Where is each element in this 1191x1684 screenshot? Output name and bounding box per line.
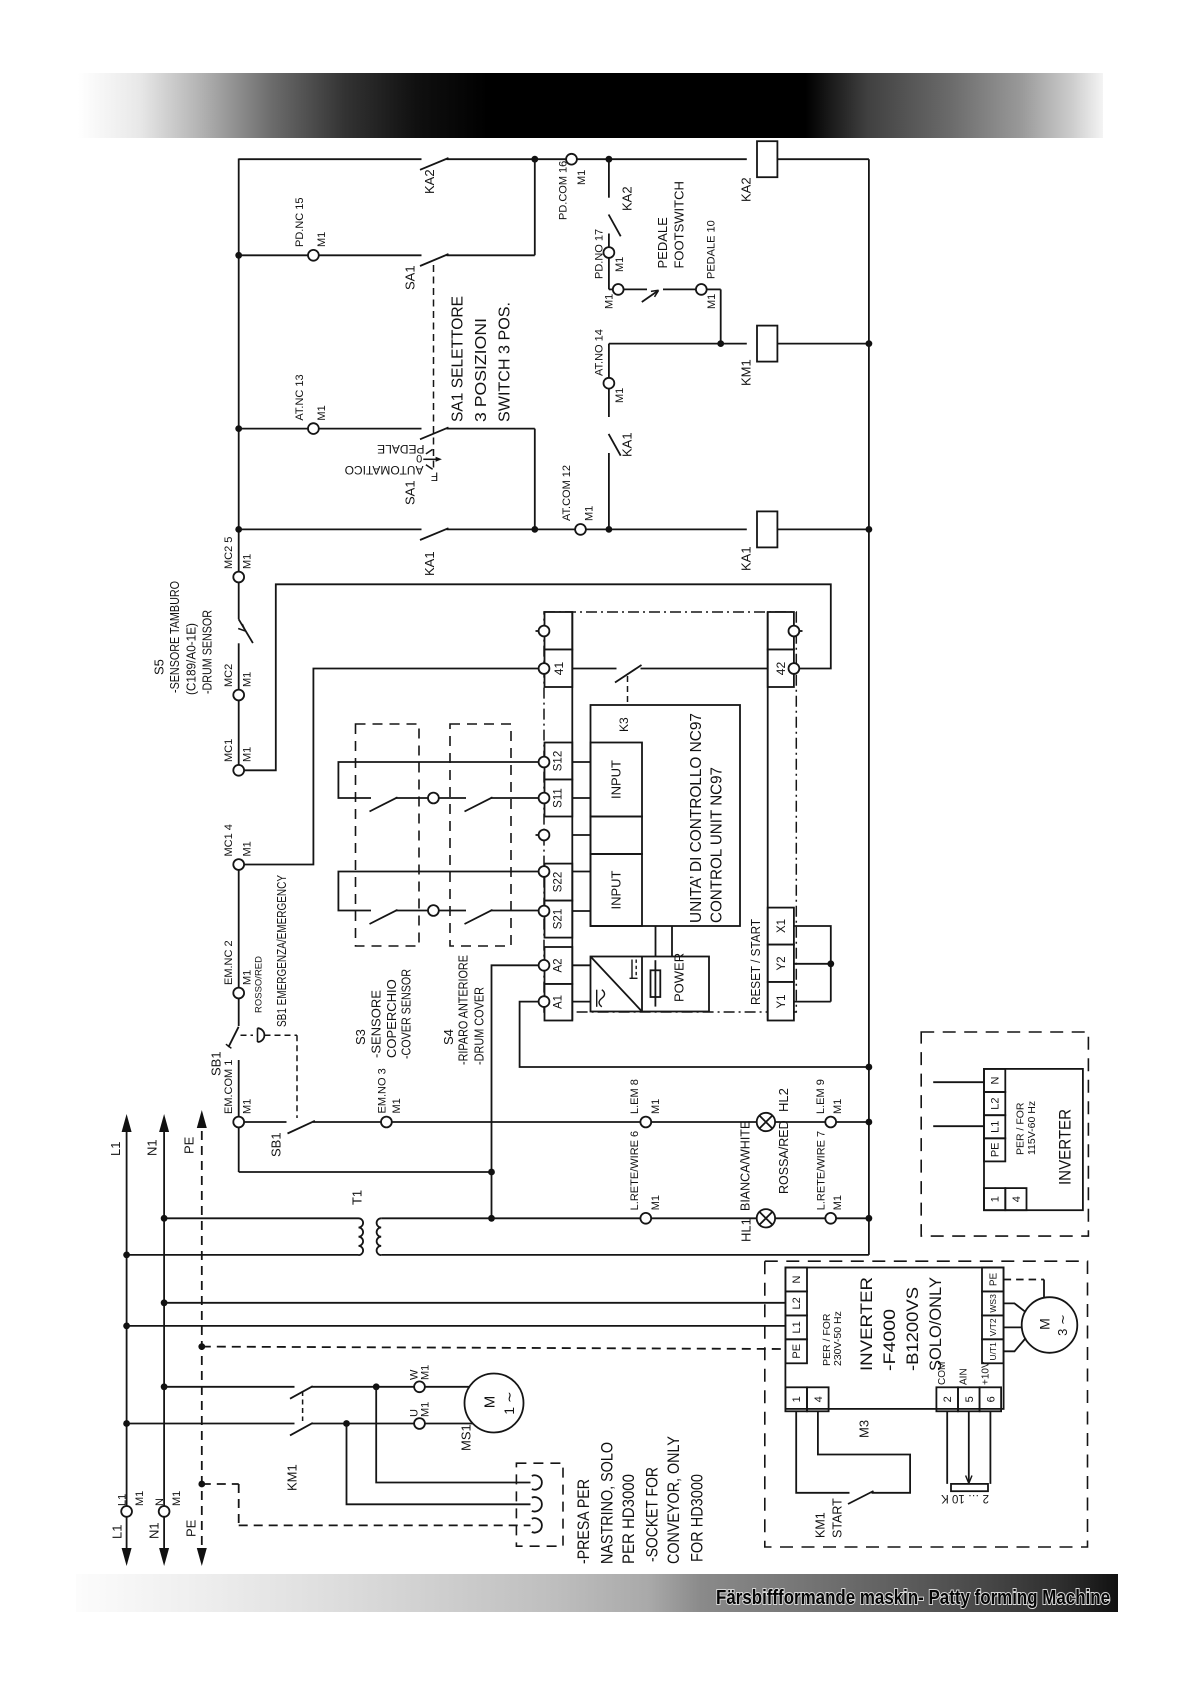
svg-text:M: M [481, 1396, 498, 1409]
wire AT.NO 14 branch [608, 344, 610, 378]
wire S11 to control unit [491, 797, 539, 799]
wire between S3 and S4 contacts (S21) [396, 910, 429, 912]
svg-text:M1: M1 [614, 388, 626, 403]
terminal EM.NO 3 / M1 [381, 1117, 392, 1128]
contact KA1 (NO) on rung [420, 528, 449, 540]
svg-text:RESET / START: RESET / START [748, 919, 763, 1005]
wire N1 to T1 primary top [164, 1217, 358, 1219]
wire WIRE7 to rail [836, 1217, 869, 1219]
svg-text:M: M [1037, 1318, 1053, 1330]
wire L.EM 9 to rail [836, 1121, 869, 1123]
svg-text:X1: X1 [776, 919, 788, 933]
wire rung motor U [127, 1423, 295, 1425]
node junction (830.8,963.8) [827, 960, 834, 967]
contact KA1 (branch x=609) [608, 388, 610, 417]
svg-text:L.RETE/WIRE 7: L.RETE/WIRE 7 [815, 1131, 827, 1210]
node junctions on buses [161, 1215, 168, 1222]
terminal PD.NO 17 / M1 [604, 247, 615, 258]
svg-text:2: 2 [942, 1396, 954, 1402]
node junction rail y=255.3 [235, 252, 242, 259]
svg-text:INVERTER: INVERTER [857, 1277, 876, 1371]
svg-text:L2: L2 [791, 1297, 803, 1309]
control unit inner block [591, 705, 741, 926]
svg-text:N: N [990, 1076, 1002, 1084]
wire to U terminal [312, 1423, 415, 1425]
control unit NC97 boundary (dash-dot) [544, 612, 796, 1012]
terminal junction S11 between boxes [428, 793, 439, 804]
svg-text:L1: L1 [791, 1321, 803, 1333]
svg-text:1: 1 [990, 1196, 1002, 1202]
terminal L.RETE/WIRE 7 / M1 [825, 1213, 836, 1224]
inverter body [785, 1268, 1003, 1409]
svg-text:L.EM 9: L.EM 9 [815, 1079, 827, 1114]
node junction (346.5,1423.5) [343, 1420, 350, 1427]
svg-text:115V-60 Hz: 115V-60 Hz [1026, 1101, 1038, 1155]
svg-text:M1: M1 [706, 294, 718, 309]
svg-text:SA1 SELETTORE: SA1 SELETTORE [450, 296, 467, 422]
svg-text:N1: N1 [145, 1139, 160, 1156]
node junction rail y=1218.3 [866, 1215, 873, 1222]
wire W to motor [425, 1386, 470, 1388]
svg-text:FOOTSWITCH: FOOTSWITCH [672, 181, 687, 268]
contact KM1 START [848, 1491, 874, 1504]
terminal box A2 [545, 947, 573, 984]
coil KM1 [757, 326, 777, 362]
wire L1 to inverter L1 [127, 1325, 786, 1327]
S4 dashed enclosure box [450, 724, 511, 946]
wire V/T2 to motor [1004, 1326, 1022, 1328]
svg-text:PEDALE 10: PEDALE 10 [706, 220, 718, 279]
wire X1/Y2/Y1 jumper [794, 926, 831, 1002]
svg-text:AT.COM 12: AT.COM 12 [561, 465, 573, 521]
svg-text:KA2: KA2 [620, 186, 635, 211]
terminal MC1 / M1 on rail [233, 765, 244, 776]
terminal box X1 [768, 908, 794, 945]
svg-text:L1: L1 [117, 1494, 129, 1506]
terminal AT.COM 12 / M1 [575, 524, 586, 535]
svg-text:M1: M1 [420, 1402, 432, 1417]
svg-text:PD.NO 17: PD.NO 17 [594, 229, 606, 279]
svg-text:-SENSORE TAMBURO: -SENSORE TAMBURO [167, 581, 182, 693]
wire: EM.COM return to node (491.5,1172) [239, 1171, 492, 1173]
svg-text:PD.COM 16: PD.COM 16 [558, 161, 570, 220]
wire vertical x=535 joining AT.NC rung to KA1 rung [534, 429, 536, 530]
svg-text:N1: N1 [147, 1522, 162, 1539]
svg-text:3 POSIZIONI: 3 POSIZIONI [473, 318, 490, 422]
svg-text:SA1: SA1 [403, 480, 418, 505]
svg-text:L1: L1 [108, 1142, 123, 1156]
svg-text:KA1: KA1 [422, 551, 437, 576]
wire rung KM1 coil [609, 343, 747, 345]
svg-text:M1: M1 [576, 170, 588, 185]
wire stub to L1 (115V) [933, 1125, 984, 1127]
svg-text:PEDALE: PEDALE [655, 217, 670, 269]
svg-text:PE: PE [988, 1273, 999, 1287]
terminal AT.NC 13 / M1 [308, 423, 319, 434]
wire EM rung + contact SB1 NO [244, 1121, 381, 1134]
svg-text:MS1: MS1 [459, 1424, 474, 1451]
bus N1 vertical [163, 1131, 165, 1506]
node junction rail y=1067 [866, 1064, 873, 1071]
wire to lamp HL2 [651, 1121, 757, 1123]
svg-text:1 ∼: 1 ∼ [501, 1391, 517, 1414]
wire: right rail x=868.9 [868, 159, 870, 1255]
svg-text:S4: S4 [441, 1029, 456, 1045]
contact KM1 lower [290, 1423, 313, 1436]
svg-text:KM1: KM1 [814, 1512, 828, 1538]
wire PD.NO17 down to footswitch terminal [608, 258, 610, 290]
wire to W terminal [312, 1386, 415, 1388]
svg-text:M1: M1 [242, 672, 254, 687]
terminal box 42 [768, 650, 794, 688]
svg-text:M1: M1 [134, 1491, 146, 1506]
svg-text:PE: PE [182, 1136, 197, 1154]
wire terminal1 to KM1 start contact [796, 1411, 849, 1493]
svg-text:M1: M1 [242, 970, 254, 985]
svg-text:L1: L1 [110, 1525, 125, 1539]
wire S22 loop [338, 872, 538, 911]
svg-text:SB1: SB1 [269, 1132, 284, 1157]
svg-text:SB1 EMERGENZA/EMERGENCY: SB1 EMERGENZA/EMERGENCY [275, 874, 289, 1027]
wire: left supply rail x=238.7 segments [238, 159, 240, 1173]
wire rung AT.NC 13 [239, 428, 309, 430]
SB1 actuator dashed link [241, 1034, 254, 1036]
svg-text:EM.NC 2: EM.NC 2 [223, 940, 235, 985]
wire MC1 4 to terminal 41 (via x=313.4, y=668.5) [244, 669, 539, 865]
S3 dashed enclosure box [356, 724, 420, 946]
node junction rail right y=529 [866, 526, 873, 533]
wire rung PD.NC 15 [239, 254, 309, 256]
svg-text:-DRUM COVER: -DRUM COVER [472, 987, 487, 1065]
motor MS1 1-phase [465, 1374, 524, 1433]
svg-text:M1: M1 [242, 1099, 254, 1114]
wire S21 to control unit [491, 910, 539, 912]
svg-text:A1: A1 [553, 995, 565, 1009]
svg-text:S22: S22 [553, 872, 565, 892]
inverter terminal boxes 1 4 [785, 1387, 807, 1411]
INPUT block 1 [591, 743, 643, 817]
svg-text:HL2: HL2 [776, 1088, 791, 1112]
contact S3 (S21 circuit) [370, 910, 398, 924]
svg-text:M1: M1 [316, 232, 328, 247]
title bar bottom (scanned gradient) [76, 1574, 1118, 1612]
svg-text:MC2: MC2 [223, 664, 235, 687]
control unit inner vertical rails [571, 612, 573, 1021]
svg-text:INPUT: INPUT [609, 760, 624, 799]
wire WS3 to motor [1004, 1303, 1026, 1312]
terminal MC1 4 / M1 on rail [233, 859, 244, 870]
wire stub to N (115V) [933, 1081, 984, 1083]
svg-text:4: 4 [813, 1396, 825, 1402]
svg-text:A2: A2 [553, 958, 565, 972]
node junction (491.5,1172) [488, 1169, 495, 1176]
coil KA1 [757, 511, 777, 547]
svg-text:M1: M1 [650, 1195, 662, 1210]
svg-text:KA1: KA1 [620, 432, 635, 457]
svg-text:-COVER SENSOR: -COVER SENSOR [399, 969, 414, 1059]
terminal L.EM 9 / M1 [825, 1117, 836, 1128]
terminal L.RETE/WIRE 6 / M1 [640, 1213, 651, 1224]
svg-text:MC1: MC1 [223, 739, 235, 762]
inverter M3 dashed enclosure [765, 1261, 1088, 1547]
svg-text:Y1: Y1 [776, 994, 788, 1008]
svg-text:CONVEYOR, ONLY: CONVEYOR, ONLY [665, 1436, 683, 1564]
svg-text:EM.COM 1: EM.COM 1 [223, 1060, 235, 1114]
svg-text:M1: M1 [316, 405, 328, 420]
svg-text:M1: M1 [604, 294, 616, 309]
wires POWER to control block [655, 926, 657, 957]
terminal box S21 [545, 901, 573, 938]
svg-text:S3: S3 [353, 1029, 368, 1045]
svg-text:M1: M1 [171, 1491, 183, 1506]
sensor S5 drum sensor contact [238, 619, 253, 643]
mid block [591, 817, 643, 855]
node junction (376.2,1386.8) [373, 1383, 380, 1390]
svg-text:PE: PE [184, 1519, 199, 1537]
arrow PE top [197, 1110, 207, 1128]
svg-text:41: 41 [552, 662, 566, 676]
contact K3 (dashed link to unit) [615, 665, 642, 683]
wire lamp HL1 to L.RETE/WIRE 7 [775, 1217, 825, 1219]
wire between S3 and S4 contacts (S11) [396, 797, 429, 799]
motor M3 3-phase [1022, 1297, 1078, 1353]
AC/DC converter symbol [591, 957, 643, 1012]
node junction (491.5,1218) [488, 1215, 495, 1222]
selector position marks and arrow [423, 449, 442, 469]
svg-text:42: 42 [774, 662, 788, 676]
arrow N1 bottom [159, 1548, 169, 1566]
terminal L.EM 8 / M1 [640, 1117, 651, 1128]
terminal PD.NC 15 / M1 [308, 250, 319, 261]
svg-text:-PRESA PER: -PRESA PER [575, 1479, 593, 1564]
wire T1 secondary top to HL1 row [381, 1217, 640, 1219]
node junction (608.9,529) [606, 526, 613, 533]
svg-text:N: N [791, 1275, 803, 1283]
arrow L1 top [122, 1114, 132, 1132]
wire KA2 coil to right rail [777, 158, 869, 160]
inverter 115V dashed enclosure [921, 1032, 1088, 1236]
svg-text:M1: M1 [242, 554, 254, 569]
terminal L1 / M1 bottom [121, 1506, 132, 1517]
svg-text:SWITCH 3 POS.: SWITCH 3 POS. [497, 302, 514, 422]
wire U/T1 to motor [1004, 1338, 1026, 1351]
svg-text:KA1: KA1 [739, 546, 754, 571]
svg-text:6: 6 [985, 1396, 997, 1402]
stub wires terminals to blocks [572, 762, 590, 911]
terminal MC2 5 / M1 on rail [233, 572, 244, 583]
wire L1 to T1 primary bottom [127, 1254, 359, 1256]
fuse in POWER block [651, 970, 661, 997]
svg-text:M1: M1 [391, 1098, 403, 1113]
contact KA2 (NO) on top rung [239, 158, 535, 170]
terminal M1 (footswitch left) [613, 284, 624, 295]
wire S12 loop [338, 762, 538, 798]
svg-text:4: 4 [1011, 1196, 1023, 1202]
wire terminal5 wiper arrow [968, 1411, 970, 1482]
svg-text:WS3: WS3 [988, 1294, 998, 1313]
svg-text:FOR HD3000: FOR HD3000 [689, 1474, 707, 1562]
wire 41-42 internal with contact K3 [572, 668, 616, 670]
node junction rail y=529.4 [235, 526, 242, 533]
contact SA1 lower (selector) [420, 427, 449, 439]
wire to lamp HL1 [651, 1217, 757, 1219]
svg-text:L.RETE/WIRE 6: L.RETE/WIRE 6 [629, 1131, 641, 1210]
svg-text:-B1200VS: -B1200VS [903, 1287, 922, 1371]
wire A2 to common node [492, 965, 539, 1218]
svg-text:AUTOMATICO: AUTOMATICO [345, 463, 424, 477]
svg-text:PE: PE [990, 1142, 1002, 1157]
svg-text:MC1 4: MC1 4 [223, 824, 235, 856]
node junction (608.9,159) [606, 156, 613, 163]
terminal N / M1 bottom [159, 1506, 170, 1517]
svg-text:HL1: HL1 [739, 1218, 754, 1242]
svg-text:3 ∼: 3 ∼ [1055, 1314, 1070, 1336]
wire KM1 coil to right rail [777, 343, 869, 345]
contact KM1 upper [290, 1386, 313, 1399]
svg-text:Färsbiffformande maskin- Patty: Färsbiffformande maskin- Patty forming M… [716, 1587, 1110, 1609]
terminal box 41 [545, 650, 573, 688]
terminal W / M1 [414, 1381, 425, 1392]
contact S4 (S11 circuit) [439, 797, 466, 799]
svg-text:ROSSA/RED: ROSSA/RED [777, 1120, 791, 1194]
svg-text:-SENSORE: -SENSORE [368, 990, 383, 1058]
arrow N1 top [159, 1114, 169, 1132]
svg-text:PER HD3000: PER HD3000 [620, 1474, 638, 1564]
svg-text:-F4000: -F4000 [880, 1309, 899, 1371]
potentiometer 2...10K body [951, 1484, 988, 1491]
node junction rail y=428.6 [235, 425, 242, 432]
svg-text:SB1: SB1 [209, 1051, 224, 1076]
svg-text:COPERCHIO: COPERCHIO [384, 979, 399, 1058]
svg-text:K3: K3 [617, 717, 631, 732]
svg-text:START: START [831, 1498, 845, 1538]
svg-text:Y2: Y2 [776, 956, 788, 970]
wire T1 secondary bottom to right rail [381, 1254, 869, 1256]
terminal U / M1 [414, 1418, 425, 1429]
node junction (535,529) [531, 526, 538, 533]
terminal EM.COM 1 / M1 on rail [233, 1117, 244, 1128]
svg-text:PD.NC 15: PD.NC 15 [294, 197, 306, 247]
wire + contact KA2 (x=609 branch) [608, 159, 610, 198]
svg-text:UNITA’ DI CONTROLLO NC97: UNITA’ DI CONTROLLO NC97 [688, 713, 705, 923]
node junction rail y=1122 [866, 1119, 873, 1126]
svg-text:M1: M1 [584, 506, 596, 521]
svg-text:S12: S12 [553, 751, 565, 771]
wire KA1 coil to right rail [777, 528, 869, 530]
wire vertical x=535 joining PD.NC rung to top rung [534, 159, 536, 255]
wire MC1 to terminal 42 (via x=275.8, y=584.3) [244, 584, 831, 770]
bus L1 vertical [126, 1131, 128, 1506]
contact SB1 emergency NC on rail [228, 1027, 238, 1047]
wire inverter PE to motor (dashed then solid) [1004, 1279, 1044, 1281]
coil KA2 [757, 141, 777, 177]
svg-text:NASTRINO, SOLO: NASTRINO, SOLO [598, 1442, 616, 1564]
POWER block [591, 957, 710, 1012]
svg-text:M3: M3 [857, 1420, 872, 1438]
terminal PD.COM 16 / M1 [566, 154, 577, 165]
115V terminal boxes 1 4 [984, 1188, 1005, 1210]
terminal box S12 [545, 743, 573, 780]
wire W tap to socket [376, 1387, 530, 1483]
svg-text:INVERTER: INVERTER [1056, 1109, 1075, 1185]
terminal PEDALE 10 / M1 [696, 284, 707, 295]
svg-text:BIANCA/WHITE: BIANCA/WHITE [739, 1121, 753, 1211]
svg-text:1: 1 [791, 1396, 803, 1402]
terminal AT.NO 14 / M1 [604, 378, 615, 389]
contact S3 (S11 circuit) [370, 797, 398, 811]
svg-text:SA1: SA1 [403, 265, 418, 290]
INPUT block 2 [591, 854, 643, 926]
inverter terminal boxes N L2 L1 PE [785, 1268, 807, 1364]
terminal EM.NC 2 / M1 on rail [233, 988, 244, 999]
terminal junction S21 between boxes [428, 905, 439, 916]
svg-text:CONTROL UNIT NC97: CONTROL UNIT NC97 [708, 767, 725, 923]
terminal box (top right, unused) with stub [768, 612, 794, 650]
terminal box S22 [545, 864, 573, 901]
wire PE tap to socket (dashed) [202, 1483, 239, 1485]
socket dashed box [516, 1463, 563, 1546]
wire A1 to right rail (y=1067) [520, 1002, 869, 1067]
svg-text:EM.NO 3: EM.NO 3 [376, 1068, 388, 1113]
KM1 contacts mechanical dashed link [302, 1391, 304, 1421]
svg-text:AIN: AIN [959, 1368, 970, 1385]
svg-text:L.EM 8: L.EM 8 [629, 1079, 641, 1114]
svg-text:5: 5 [964, 1396, 976, 1402]
socket contact arcs [532, 1475, 542, 1532]
svg-text:-RIPARO ANTERIORE: -RIPARO ANTERIORE [456, 955, 471, 1065]
svg-text:-SOCKET FOR: -SOCKET FOR [643, 1467, 661, 1562]
svg-text:AT.NC 13: AT.NC 13 [294, 374, 306, 420]
terminal MC2 / M1 on rail [233, 690, 244, 701]
wire rung motor W [164, 1386, 294, 1388]
svg-text:+10V: +10V [981, 1361, 992, 1385]
svg-text:N: N [154, 1498, 166, 1506]
terminal box (top left, unused) with stub [545, 612, 573, 650]
svg-text:S11: S11 [553, 788, 565, 808]
wire PD.COM16 to KA2 coil [535, 158, 567, 160]
svg-text:M1: M1 [420, 1365, 432, 1380]
svg-text:POWER: POWER [672, 953, 687, 1002]
arrow L1 bottom [122, 1548, 132, 1566]
title bar top (scanned gradient) [78, 73, 1103, 138]
wire PEDALE to KM1 rung [707, 288, 721, 290]
terminal (mid, unused) with stub [536, 834, 540, 836]
footswitch pedal contact [623, 289, 696, 302]
terminal box Y1 [768, 982, 794, 1021]
inverter terminal boxes 2 5 6 [936, 1387, 958, 1411]
wire terminal6 to potentiometer [989, 1411, 991, 1484]
svg-text:M1: M1 [242, 747, 254, 762]
transformer T1 secondary winding [377, 1218, 382, 1255]
115V terminal boxes N L2 L1 PE [984, 1069, 1005, 1162]
node junction (535,159) [531, 156, 538, 163]
svg-text:SOLO/ONLY: SOLO/ONLY [926, 1277, 945, 1371]
svg-text:L2: L2 [990, 1097, 1002, 1109]
wire N1 to inverter L2 [164, 1302, 785, 1304]
wire start contact to terminal4 [818, 1411, 910, 1493]
lamp HL2 [757, 1113, 775, 1131]
svg-text:S21: S21 [553, 909, 565, 929]
svg-text:M1: M1 [242, 841, 254, 856]
svg-text:AT.NO 14: AT.NO 14 [594, 329, 606, 376]
lamp HL1 [757, 1209, 775, 1227]
terminal box S11 [545, 780, 573, 817]
wire lamp HL2 to L.EM 9 [775, 1121, 825, 1123]
svg-text:M1: M1 [832, 1099, 844, 1114]
inverter 115V body [984, 1069, 1083, 1210]
svg-text:PE: PE [791, 1344, 803, 1359]
svg-text:F: F [431, 470, 438, 484]
